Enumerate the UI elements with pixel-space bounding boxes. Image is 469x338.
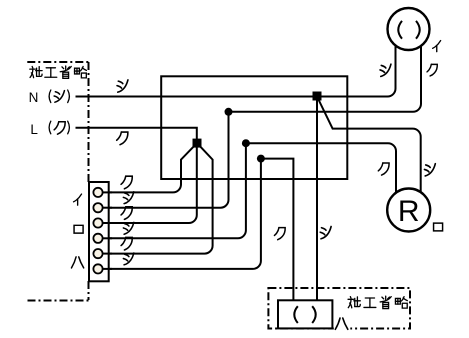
power source omitted box (dash-dot, top-left)	[27, 62, 88, 301]
square joint B	[193, 139, 202, 148]
wire dot1 to lamp-i right	[229, 46, 422, 112]
label ku w1	[121, 176, 132, 189]
wire dot3 down to terminal 6 (w6)	[103, 159, 261, 269]
label ku near lamp-ha left wire	[274, 228, 285, 240]
label ku near R left	[378, 163, 389, 175]
label shi near R right	[424, 164, 435, 176]
terminal 4	[93, 234, 102, 243]
label ku w3	[121, 207, 132, 220]
label 施工省略 (top-left)	[30, 66, 87, 78]
lamp HA box	[278, 300, 332, 328]
wire B left diagonal to terminal 1 (w1)	[103, 143, 197, 192]
wire L line down to square B	[76, 128, 197, 143]
label ku w5	[121, 237, 132, 250]
label ro (receptacle)	[434, 223, 443, 231]
lamp HA omitted box (dash-dot, bottom-right)	[268, 288, 410, 329]
terminal 6	[93, 264, 102, 273]
terminal block	[89, 182, 109, 281]
joint dot 3	[257, 155, 265, 163]
wire dot2 to R left	[246, 143, 396, 192]
wire dot2 down to terminal 4 (w4)	[103, 143, 246, 238]
square joint A	[313, 92, 322, 101]
lamp receptacle R	[387, 189, 430, 232]
label i (switch group)	[74, 194, 82, 205]
wire B right diagonal to terminal 5 (w5)	[103, 143, 213, 254]
label ha (lamp)	[335, 318, 348, 329]
terminal 3	[93, 218, 102, 227]
label shi w2	[123, 192, 133, 204]
white gap in border behind lamp-ha label	[334, 316, 351, 332]
svg-text:N: N	[29, 90, 39, 105]
wire dot3 to lamp-ha left	[261, 159, 294, 301]
label ku near lamp-i right	[427, 64, 437, 76]
label shi near lamp-i left	[380, 64, 391, 76]
label 施工省略 (bottom)	[348, 296, 407, 308]
svg-text:L: L	[30, 122, 38, 137]
label ha (switch group)	[71, 257, 83, 268]
label i (lamp)	[433, 41, 441, 52]
wire A diagonal to R right	[317, 97, 421, 192]
label shi on N wire	[117, 80, 128, 92]
junction box	[161, 76, 347, 179]
wire dot1 down to terminal 2 (w2)	[103, 112, 229, 208]
joint dot 1	[225, 108, 233, 116]
joint dot 2	[242, 139, 250, 147]
wire N line to lamp-i left	[76, 46, 396, 97]
wire labels near terminals	[121, 176, 134, 265]
terminal wire stubs	[98, 192, 112, 269]
label shi w4	[123, 222, 133, 234]
label shi near lamp-ha right wire	[320, 227, 331, 239]
svg-text:R: R	[398, 195, 420, 228]
terminal 2	[93, 203, 102, 212]
terminal 5	[93, 249, 102, 258]
terminal 1	[93, 188, 102, 197]
wire A down to lamp-ha right	[316, 100, 318, 300]
label shi w6	[123, 253, 133, 265]
lamp I (ceiling light) circle	[388, 8, 430, 50]
label ku on L wire	[117, 132, 128, 145]
label ro (switch group)	[74, 225, 83, 233]
wire B bottom to terminal 3 (w3)	[103, 143, 197, 223]
